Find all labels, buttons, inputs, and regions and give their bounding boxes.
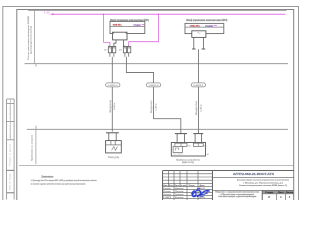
band 2 column stub top [35,64,37,67]
drawing inner frame [17,10,294,213]
svg-text:Подп. и дата: Подп. и дата [10,142,12,166]
cable tag oval 1 [106,83,120,87]
load A2 terminal block XT2 [193,143,203,146]
svg-text:Лист: Лист [175,185,180,187]
controller A1 box [113,32,127,40]
stage header cells [262,191,293,194]
wire group 3 [198,49,200,133]
svg-text:QF2: QF2 [119,49,123,51]
band 1 rotated label [28,15,33,60]
controller A1 pin dots [113,33,114,34]
band divider line 3 [19,165,293,167]
svg-text:Кол.: Кол. [169,185,174,187]
sheet outer border [3,7,299,212]
change table header texts [163,184,204,187]
svg-text:06.21: 06.21 [199,197,205,199]
cable 2 designation text [150,101,157,114]
svg-text:2. Сечение и длины кабелей уто: 2. Сечение и длины кабелей уточнить при … [31,182,86,185]
svg-text:Петров: Петров [175,191,184,193]
svg-text:Лист: Лист [278,192,284,194]
svg-text:Автоматизация системы управлен: Автоматизация системы управления компоне… [237,179,290,182]
signature rows texts [163,188,205,199]
svg-text:ВВГнг(А)-LS 3х1,5: ВВГнг(А)-LS 3х1,5 [150,101,153,114]
cable 1 designation text [109,100,116,113]
cabinet U2 header magenta arrow [214,25,217,26]
svg-text:ТЭН1 (1А): ТЭН1 (1А) [108,156,120,159]
load E1 connector bar [106,132,119,134]
svg-text:Приёмное устройство: Приёмное устройство [176,158,201,161]
top band bold line [28,9,286,11]
load A2 plug 1 sides [177,134,185,143]
band 3 label column line [35,129,37,164]
wire group 1 [111,57,113,132]
title block right section lines [212,178,293,200]
svg-text:Сидоров: Сидоров [175,194,184,196]
svg-text:А1: А1 [207,153,209,156]
svg-text:Иванов: Иванов [175,188,184,190]
load E1 heater squiggle [112,147,118,151]
svg-text:1-ШУ1.1: 1-ШУ1.1 [108,85,118,87]
magenta feed to QF2 [129,14,159,46]
power unit leg end bars [192,48,205,50]
cabinet U1 box [110,21,145,33]
svg-text:Козлов: Козлов [175,197,184,199]
svg-text:ХТ1: ХТ1 [188,145,191,147]
left margin rotated labels [9,104,12,190]
svg-text:Подп.: Подп. [189,185,196,187]
svg-text:1-ШУ1.2: 1-ШУ1.2 [149,85,159,87]
svg-text:Шкаф управления компонентами: Шкаф управления компонентами (ШУ2) [186,19,227,22]
left margin stamp column [7,99,15,200]
svg-text:Схема электрическая питания 22: Схема электрическая питания 220В (часть … [239,185,287,187]
svg-text:г. Москва, ул. Промышленная, д: г. Москва, ул. Промышленная, д.1 [243,182,283,184]
cable tag oval 3 [191,83,205,87]
svg-text:Пров.: Пров. [163,191,172,193]
wire controller to QF1 [114,40,116,47]
svg-text:L=20 м: L=20 м [155,103,157,111]
breaker QF1 [108,46,116,52]
load E1 box [106,141,122,153]
svg-text:Взам. инв. №: Взам. инв. № [9,124,12,138]
title block outline [163,171,294,200]
band divider line 1 [25,63,289,65]
svg-text:~230В 50Гц: ~230В 50Гц [112,24,122,26]
svg-text:1. Прокладку всех КЛ от шкафов: 1. Прокладку всех КЛ от шкафов ШУ1 и ШУ2… [31,179,97,182]
svg-text:Изм.: Изм. [163,185,168,187]
band 2 column stub bottom [35,126,37,130]
breaker QF2 [123,46,131,52]
title block left grid [163,171,213,200]
svg-text:АГПТ2-062-21-ИОС7.АТХ: АГПТ2-062-21-ИОС7.АТХ [233,173,274,176]
blue signature scribble [192,188,210,197]
QF1 bottom stubs [110,53,114,57]
cabinet U2 box [185,23,224,33]
svg-text:1-ШУ2.1: 1-ШУ2.1 [193,85,203,87]
band divider line 2 [27,128,288,130]
wire controller to QF2 [122,40,124,47]
load A2 plug 2 sides [195,134,201,143]
svg-text:QF1: QF1 [104,49,108,51]
magenta supply bus 1-W with left arrowhead [50,13,286,15]
svg-text:Н.контр.: Н.контр. [163,194,172,196]
svg-text:Листов: Листов [286,192,294,194]
load A2 box [171,143,205,157]
magenta feed to QF1 [104,14,110,46]
svg-text:П: П [268,196,270,199]
svg-text:ВВГнг(А)-LS 3х1,5: ВВГнг(А)-LS 3х1,5 [195,101,198,115]
band 1 label column line [33,10,35,64]
cable 3 designation text [195,101,202,115]
svg-text:Сеть автоматизации 220В: Сеть автоматизации 220В [28,15,30,60]
svg-text:Дата: Дата [200,185,205,187]
load A2 sub-module box [173,146,182,152]
svg-text:(распределительная): (распределительная) [31,26,33,54]
svg-text:отходящ.: отходящ. [133,24,141,26]
cable tag oval 2 [146,83,160,87]
svg-text:L=25 м: L=25 м [200,104,202,112]
svg-text:Согласовано: Согласовано [10,104,12,119]
power unit S box [192,31,206,38]
svg-text:1-Ю: 1-Ю [44,12,51,15]
svg-text:ХТ2: ХТ2 [203,145,206,147]
svg-text:Разраб.: Разраб. [163,188,172,190]
svg-text:отходящие: отходящие [205,25,214,27]
QF2 bottom stubs [125,53,129,57]
power unit S squiggle [197,32,200,33]
svg-text:Приёмники эл. энергии: Приёмники эл. энергии [32,134,34,161]
svg-text:Стадия: Стадия [265,192,273,194]
load A2 connector bar 2 [193,133,203,135]
cabinet U1 header magenta arrow [141,24,144,25]
load E1 plug sides [109,133,116,141]
cabinet U2 header line [185,26,224,28]
cabinet U1 header line [110,26,145,28]
svg-text:L=15 м: L=15 м [114,102,116,110]
svg-text:Инв. № подл.: Инв. № подл. [9,172,12,190]
wire group 2 with jogs [126,57,180,134]
load A2 connector bar 1 [175,133,187,135]
project description lines [237,179,290,188]
sub-module hook mark [175,148,179,151]
svg-text:~230В, 50Гц: ~230В, 50Гц [189,25,200,27]
svg-text:(АВУ-2-01): (АВУ-2-01) [182,161,194,164]
stage values [268,196,291,199]
power unit legs [194,37,204,49]
load A2 terminal block XT1 [175,143,187,146]
svg-text:ВВГнг(А)-LS 3х1,5: ВВГнг(А)-LS 3х1,5 [109,100,112,113]
load E1 terminal row [106,144,122,146]
svg-text:Автоматизация и диспетчеризаци: Автоматизация и диспетчеризация [218,195,256,198]
organization cell text [215,190,260,198]
